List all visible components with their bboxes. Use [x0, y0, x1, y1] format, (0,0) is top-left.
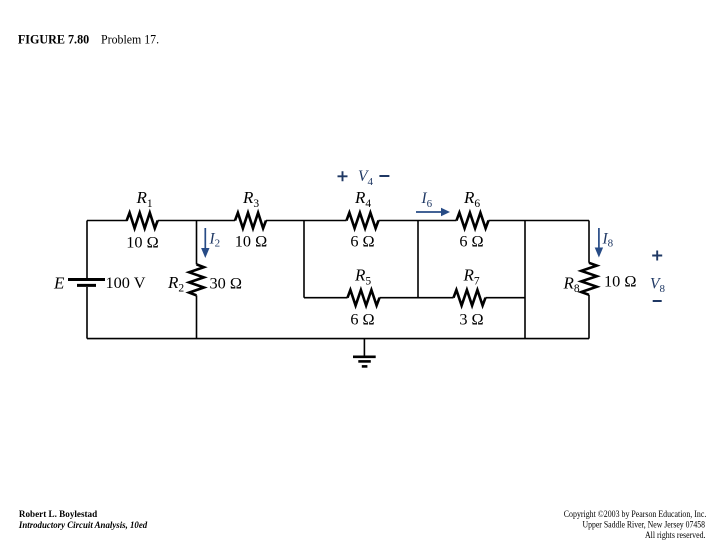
svg-text:Problem 17.: Problem 17. [101, 31, 159, 46]
ground symbol [353, 339, 376, 367]
resistor R6 [457, 213, 489, 229]
svg-text:V4: V4 [358, 168, 373, 188]
svg-text:Upper Saddle River, New Jersey: Upper Saddle River, New Jersey 07458 [583, 520, 706, 530]
wire: bottom rail [87, 338, 589, 340]
svg-text:R4: R4 [354, 188, 371, 210]
resistor R5 [348, 290, 380, 306]
svg-text:3 Ω: 3 Ω [459, 310, 483, 329]
svg-text:10 Ω: 10 Ω [126, 233, 158, 252]
svg-text:6 Ω: 6 Ω [459, 232, 483, 251]
wire: R5 row middle segment [380, 297, 454, 299]
svg-text:I2: I2 [209, 231, 221, 250]
svg-text:FIGURE 7.80: FIGURE 7.80 [18, 31, 89, 46]
svg-text:E: E [53, 274, 65, 293]
wire: vertical at node x=418 (between R4/R5 and R6/R7) [417, 221, 419, 298]
wire: left rail above battery [86, 221, 88, 279]
wire: top rail, R4 to R6 through node at x=418 [379, 220, 457, 222]
svg-text:R6: R6 [463, 188, 480, 210]
wire: top rail, R1 to R3 through node of R2 [158, 220, 235, 222]
wire: R7 row right segment [486, 297, 526, 299]
svg-text:I6: I6 [421, 190, 433, 210]
svg-text:R3: R3 [242, 188, 259, 210]
svg-text:R8: R8 [563, 274, 580, 296]
wire: vertical at node x=304 (R3 output down to R5 row) [303, 221, 305, 298]
svg-text:I8: I8 [602, 231, 614, 250]
svg-text:R2: R2 [167, 273, 184, 295]
resistor R4 [347, 213, 379, 229]
svg-text:Introductory Circuit Analysis,: Introductory Circuit Analysis, 10ed [18, 521, 148, 531]
wire: R2 branch upper [196, 221, 198, 265]
svg-text:R7: R7 [463, 266, 480, 288]
wire: top rail, R3 to R4 through node at x=304 [266, 220, 347, 222]
current arrow I6 [416, 208, 450, 216]
svg-text:V8: V8 [650, 276, 665, 296]
resistor R7 [454, 290, 486, 306]
wire: left rail below battery [86, 287, 88, 339]
svg-text:Robert L. Boylestad: Robert L. Boylestad [19, 510, 98, 520]
svg-text:30 Ω: 30 Ω [210, 274, 242, 293]
svg-text:10 Ω: 10 Ω [604, 272, 636, 291]
voltage label V8 with polarity [650, 251, 665, 302]
svg-text:All rights reserved.: All rights reserved. [645, 530, 706, 540]
current arrow I2 [201, 228, 209, 258]
svg-text:R5: R5 [354, 266, 371, 288]
battery E short plate [77, 284, 96, 287]
wire: top rail, R6 to top-right corner [489, 220, 590, 222]
svg-text:6 Ω: 6 Ω [350, 310, 374, 329]
wire: right rail below R8 [588, 295, 590, 339]
svg-text:100 V: 100 V [106, 273, 146, 292]
svg-text:10 Ω: 10 Ω [235, 232, 267, 251]
resistor R3 [235, 213, 266, 229]
svg-text:6 Ω: 6 Ω [350, 232, 374, 251]
wire: vertical at node x=525 (right of R6/R7 down to bottom rail) [524, 221, 526, 339]
resistor R8 [581, 263, 597, 295]
wire: R5 row left segment [304, 297, 348, 299]
svg-text:R1: R1 [136, 188, 153, 210]
battery E long plate [68, 278, 105, 281]
resistor R1 [127, 213, 158, 229]
wire: R2 branch lower [196, 295, 198, 338]
wire: top rail, E to R1 [87, 220, 128, 222]
resistor R2 [189, 264, 204, 295]
current arrow I8 [595, 228, 603, 258]
svg-text:Copyright ©2003 by Pearson Edu: Copyright ©2003 by Pearson Education, In… [564, 509, 707, 519]
wire: right rail above R8 [588, 221, 590, 263]
voltage label + V4 - [338, 168, 390, 188]
